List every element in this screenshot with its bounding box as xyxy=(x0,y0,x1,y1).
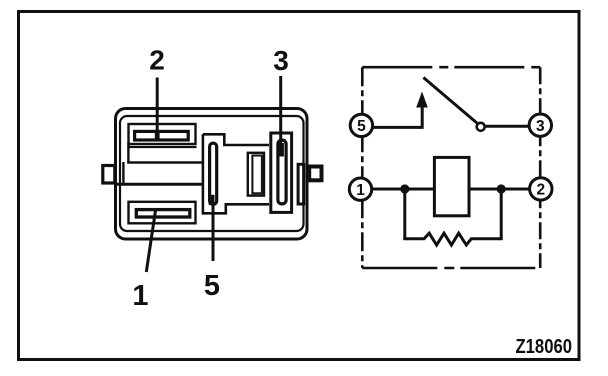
svg-text:1: 1 xyxy=(132,280,148,312)
leader line to terminal 5 xyxy=(212,199,215,262)
actuator arrow head xyxy=(416,92,428,108)
svg-text:1: 1 xyxy=(356,182,365,199)
wire coil to pin2 xyxy=(469,188,529,191)
leader line to terminal 1 xyxy=(146,211,155,273)
terminal 1 slot housing xyxy=(129,202,196,224)
svg-text:3: 3 xyxy=(536,118,545,135)
schematic dashed boundary bottom xyxy=(362,267,540,270)
schematic dashed boundary left xyxy=(361,67,364,268)
wire contact to pin3 xyxy=(486,125,529,128)
relay body outer outline xyxy=(116,109,308,240)
terminal 2 slot housing xyxy=(129,124,196,144)
terminal 3 housing xyxy=(271,133,292,212)
svg-text:2: 2 xyxy=(536,182,545,199)
terminal 1 slot xyxy=(136,210,190,217)
schematic dashed boundary top xyxy=(362,66,540,69)
svg-text:Z18060: Z18060 xyxy=(516,336,573,358)
right mounting tab xyxy=(309,167,321,181)
resistor R1 xyxy=(403,233,502,245)
terminal 3 pin mark xyxy=(278,143,284,157)
left housing wall segment xyxy=(127,143,129,164)
junction node right xyxy=(497,184,506,193)
switch contact xyxy=(477,123,485,131)
leader 2 end blob xyxy=(155,133,160,140)
terminal 3 slot xyxy=(278,140,286,204)
switch blade xyxy=(423,78,477,124)
wire left branch down xyxy=(403,189,406,240)
channel upper line xyxy=(127,161,204,163)
center small window xyxy=(248,153,264,196)
terminal 5 slot xyxy=(210,143,217,204)
wire pin1 to coil xyxy=(373,188,435,191)
pin 1 circle xyxy=(349,178,371,200)
pin 5 circle xyxy=(350,114,372,136)
center small window inner xyxy=(252,156,262,194)
leader line to terminal 3 xyxy=(279,76,282,146)
junction node left xyxy=(400,184,409,193)
wire pin5 to switch xyxy=(374,106,423,127)
svg-text:2: 2 xyxy=(149,45,165,76)
coil K1 xyxy=(434,157,469,215)
right side slot xyxy=(298,164,304,204)
left mounting tab xyxy=(103,166,115,184)
terminal 5 slot blob xyxy=(209,195,215,205)
pin 2 circle xyxy=(530,178,552,200)
svg-text:5: 5 xyxy=(357,118,366,135)
channel lower line xyxy=(114,183,204,186)
wire right branch down xyxy=(500,189,503,240)
pin 3 circle xyxy=(529,114,551,136)
svg-text:3: 3 xyxy=(273,45,289,76)
terminal 5 housing outline xyxy=(203,134,269,213)
compartment wall segment xyxy=(122,162,124,185)
relay body inner outline xyxy=(120,116,304,231)
schematic dashed boundary right xyxy=(539,67,542,268)
divider line below terminal 2 housing xyxy=(128,146,197,148)
terminal 2 slot xyxy=(135,131,189,140)
svg-text:5: 5 xyxy=(204,270,220,302)
leader line to terminal 2 xyxy=(156,78,159,138)
